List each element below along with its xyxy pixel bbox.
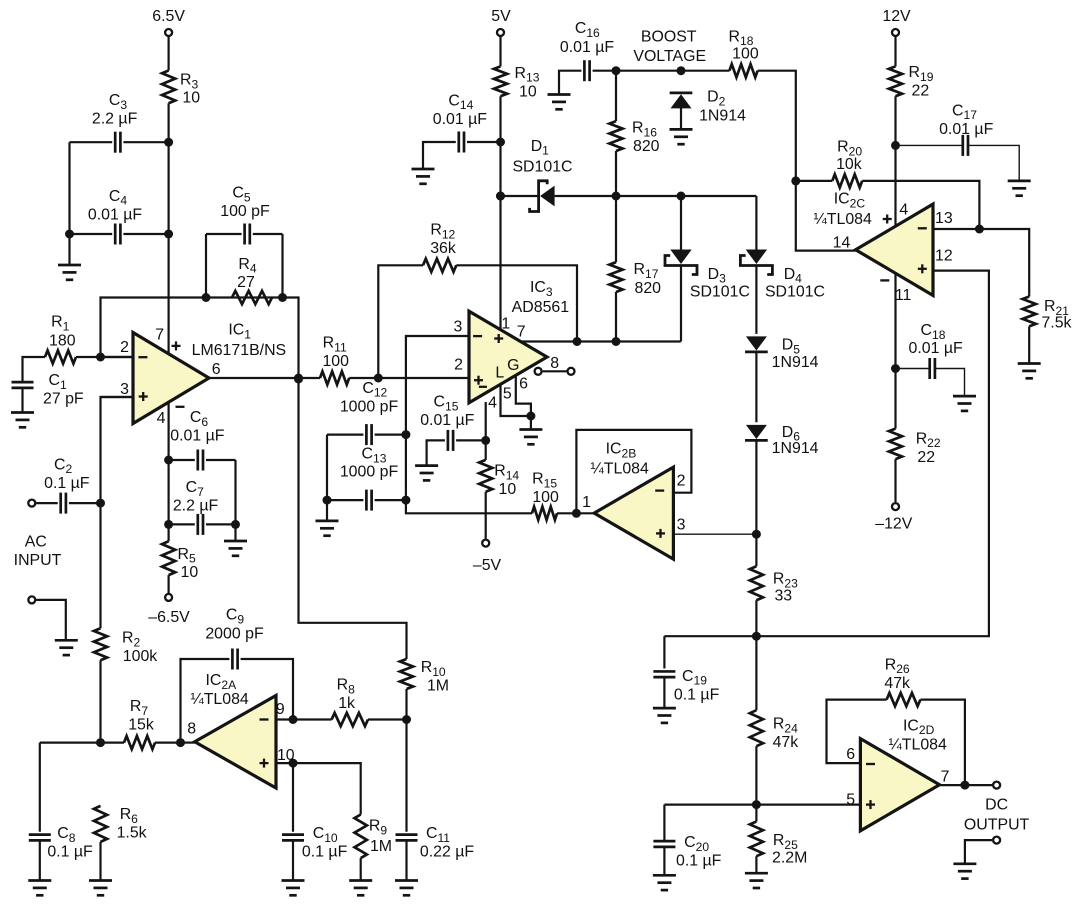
svg-text:2: 2	[677, 473, 686, 490]
svg-text:–6.5V: –6.5V	[148, 609, 190, 626]
svg-text:OUTPUT: OUTPUT	[964, 817, 1030, 834]
svg-text:L: L	[495, 365, 504, 382]
svg-text:0.01 µF: 0.01 µF	[939, 121, 993, 138]
svg-text:10: 10	[499, 481, 517, 498]
svg-text:7: 7	[941, 769, 950, 786]
svg-text:1M: 1M	[427, 678, 449, 695]
svg-text:0.01 µF: 0.01 µF	[908, 340, 962, 357]
svg-text:8: 8	[550, 355, 559, 372]
svg-text:SD101C: SD101C	[690, 284, 750, 301]
svg-text:36k: 36k	[430, 240, 456, 257]
svg-text:8: 8	[187, 720, 196, 737]
svg-text:1.5k: 1.5k	[117, 825, 147, 842]
svg-text:3: 3	[677, 516, 686, 533]
svg-text:100k: 100k	[123, 648, 158, 665]
svg-text:7.5k: 7.5k	[1041, 315, 1071, 332]
svg-text:0.01 µF: 0.01 µF	[560, 39, 614, 56]
svg-text:5V: 5V	[491, 8, 511, 25]
svg-text:3: 3	[120, 381, 129, 398]
svg-text:9: 9	[276, 701, 285, 718]
svg-text:0.1 µF: 0.1 µF	[302, 844, 348, 861]
svg-text:1k: 1k	[338, 695, 355, 712]
svg-text:BOOST: BOOST	[641, 28, 697, 45]
svg-text:1M: 1M	[370, 838, 392, 855]
svg-text:12V: 12V	[882, 8, 911, 25]
svg-text:1N914: 1N914	[699, 107, 746, 124]
svg-text:6.5V: 6.5V	[152, 8, 185, 25]
svg-text:1: 1	[501, 316, 510, 333]
svg-text:10: 10	[181, 564, 199, 581]
svg-text:–12V: –12V	[875, 516, 913, 533]
svg-text:100: 100	[322, 353, 349, 370]
svg-text:¼TL084: ¼TL084	[591, 460, 649, 477]
svg-text:1: 1	[582, 494, 591, 511]
svg-text:22: 22	[912, 83, 930, 100]
svg-text:13: 13	[935, 210, 953, 227]
svg-text:0.1 µF: 0.1 µF	[44, 475, 90, 492]
svg-text:47k: 47k	[884, 675, 910, 692]
svg-text:14: 14	[833, 234, 851, 251]
svg-text:10k: 10k	[836, 156, 862, 173]
svg-text:7: 7	[517, 324, 526, 341]
svg-text:G: G	[507, 357, 519, 374]
svg-text:SD101C: SD101C	[512, 158, 572, 175]
svg-text:2000 pF: 2000 pF	[205, 625, 264, 642]
svg-text:100: 100	[732, 46, 759, 63]
svg-text:DC: DC	[985, 796, 1008, 813]
svg-text:0.01 µF: 0.01 µF	[433, 111, 487, 128]
svg-text:33: 33	[774, 588, 792, 605]
svg-text:0.22 µF: 0.22 µF	[420, 844, 474, 861]
svg-text:4: 4	[157, 410, 166, 427]
svg-text:1000 pF: 1000 pF	[340, 399, 399, 416]
svg-text:22: 22	[917, 449, 935, 466]
svg-text:6: 6	[519, 375, 528, 392]
svg-text:1000 pF: 1000 pF	[340, 464, 399, 481]
svg-text:2: 2	[454, 357, 463, 374]
svg-text:4: 4	[899, 202, 908, 219]
svg-text:¼TL084: ¼TL084	[190, 691, 248, 708]
svg-text:7: 7	[155, 327, 164, 344]
svg-text:100 pF: 100 pF	[220, 203, 270, 220]
svg-text:6: 6	[846, 746, 855, 763]
svg-text:100: 100	[532, 489, 559, 506]
svg-text:47k: 47k	[773, 734, 799, 751]
svg-text:0.01 µF: 0.01 µF	[170, 427, 224, 444]
svg-text:11: 11	[895, 287, 912, 304]
svg-text:6: 6	[212, 361, 221, 378]
svg-text:AC: AC	[25, 533, 47, 550]
svg-text:12: 12	[935, 247, 953, 264]
svg-text:820: 820	[635, 280, 662, 297]
svg-text:VOLTAGE: VOLTAGE	[633, 48, 706, 65]
svg-text:INPUT: INPUT	[14, 552, 62, 569]
svg-text:10: 10	[519, 83, 537, 100]
svg-text:0.01 µF: 0.01 µF	[420, 412, 474, 429]
svg-text:27 pF: 27 pF	[43, 390, 84, 407]
svg-text:LM6171B/NS: LM6171B/NS	[192, 342, 287, 359]
svg-text:0.1 µF: 0.1 µF	[674, 686, 720, 703]
svg-text:0.1 µF: 0.1 µF	[47, 844, 93, 861]
svg-text:5: 5	[503, 385, 512, 402]
svg-text:1N914: 1N914	[772, 440, 819, 457]
svg-text:10: 10	[182, 90, 200, 107]
svg-text:4: 4	[488, 395, 497, 412]
svg-text:15k: 15k	[128, 717, 154, 734]
svg-text:2.2M: 2.2M	[772, 850, 807, 867]
svg-text:2.2 µF: 2.2 µF	[92, 111, 138, 128]
svg-text:820: 820	[633, 138, 660, 155]
svg-text:¼TL084: ¼TL084	[889, 737, 947, 754]
svg-text:¼TL084: ¼TL084	[814, 211, 872, 228]
svg-text:–5V: –5V	[473, 557, 502, 574]
svg-text:0.01 µF: 0.01 µF	[88, 206, 142, 223]
svg-text:3: 3	[453, 318, 462, 335]
svg-text:5: 5	[846, 792, 855, 809]
svg-text:AD8561: AD8561	[512, 299, 570, 316]
svg-text:1N914: 1N914	[772, 354, 819, 371]
svg-text:0.1 µF: 0.1 µF	[676, 853, 722, 870]
svg-text:SD101C: SD101C	[765, 284, 825, 301]
svg-text:2: 2	[120, 339, 129, 356]
svg-text:2.2 µF: 2.2 µF	[173, 498, 219, 515]
svg-text:180: 180	[49, 333, 76, 350]
svg-text:27: 27	[237, 274, 255, 291]
